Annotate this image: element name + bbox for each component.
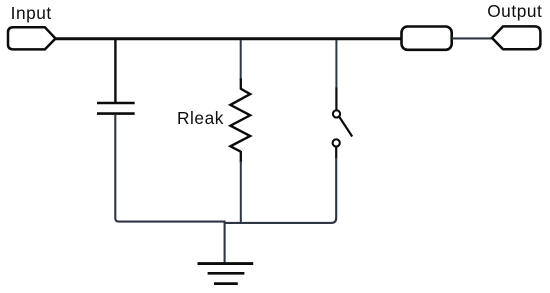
switch SW1 top lead [335,88,337,111]
switch SW1 bottom lead [335,147,337,159]
resistor Rleak top lead [240,79,242,90]
wire: SW1 bottom to ground rail [225,158,337,223]
switch SW1 top contact [333,110,340,117]
port Output [492,26,540,49]
svg-text:Rleak: Rleak [177,108,224,128]
ground [198,264,254,284]
wire: top rail junction to resistor Rleak [240,40,242,80]
wire: top rail junction to capacitor C1 top plate [114,39,116,103]
svg-text:Input: Input [11,3,52,23]
wire: top rail junction to switch SW1 [335,40,337,89]
wire: Input port to R1 box (top rail) [54,37,403,40]
component R1 (series box) [402,27,452,50]
wire: R1 box to Output port [452,37,493,39]
port Input [8,27,56,49]
switch SW1 blade [339,117,352,137]
resistor Rleak [230,89,250,152]
wire: ground rail stem to ground symbol [224,222,226,264]
svg-text:Output: Output [487,1,542,21]
switch SW1 bottom contact [333,139,340,146]
wire: C1 bottom to ground rail [115,115,225,222]
capacitor C1 [97,103,135,114]
resistor Rleak bottom lead [240,151,242,162]
wire: Rleak bottom to ground rail [240,161,242,224]
